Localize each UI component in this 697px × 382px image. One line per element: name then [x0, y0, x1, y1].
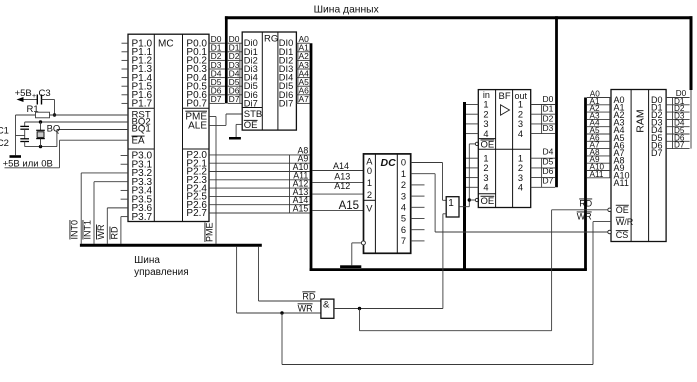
- svg-text:1: 1: [448, 198, 454, 209]
- svg-text:EA: EA: [132, 136, 146, 147]
- svg-text:4: 4: [401, 203, 406, 213]
- svg-text:R1: R1: [27, 104, 39, 115]
- svg-text:D7: D7: [229, 94, 240, 104]
- svg-text:P0.7: P0.7: [186, 99, 207, 110]
- svg-text:управления: управления: [134, 267, 189, 278]
- svg-text:5: 5: [401, 214, 406, 224]
- svg-text:P1.7: P1.7: [132, 99, 153, 110]
- svg-text:A15: A15: [339, 200, 359, 212]
- svg-text:in: in: [483, 90, 490, 100]
- svg-text:OE: OE: [244, 120, 258, 131]
- svg-text:3: 3: [483, 119, 488, 129]
- svg-text:2: 2: [367, 190, 372, 200]
- svg-text:4: 4: [518, 129, 523, 139]
- svg-text:BQ1: BQ1: [132, 124, 151, 135]
- svg-text:CS: CS: [616, 230, 629, 240]
- svg-text:W/R: W/R: [616, 217, 634, 227]
- svg-text:Шина: Шина: [134, 255, 160, 266]
- svg-text:RD: RD: [110, 226, 120, 239]
- svg-text:STB: STB: [244, 109, 262, 120]
- svg-text:A7: A7: [299, 94, 310, 104]
- svg-text:4: 4: [483, 129, 488, 139]
- svg-text:1: 1: [518, 153, 523, 163]
- svg-text:INT0: INT0: [70, 220, 80, 240]
- svg-text:INT1: INT1: [83, 220, 93, 240]
- svg-text:2: 2: [483, 163, 488, 173]
- svg-text:BQ: BQ: [47, 124, 61, 135]
- svg-text:ALE: ALE: [188, 121, 207, 132]
- svg-text:0: 0: [401, 158, 406, 168]
- svg-text:D6: D6: [543, 166, 554, 176]
- svg-text:1: 1: [367, 178, 372, 188]
- svg-text:P3.7: P3.7: [132, 212, 153, 223]
- svg-text:RAM: RAM: [635, 109, 647, 132]
- svg-text:A12: A12: [334, 181, 350, 191]
- svg-text:A11: A11: [590, 170, 604, 179]
- svg-text:D7: D7: [543, 176, 554, 186]
- svg-text:0: 0: [367, 166, 372, 176]
- svg-text:4: 4: [483, 183, 488, 193]
- svg-text:3: 3: [483, 173, 488, 183]
- svg-text:A14: A14: [333, 161, 349, 171]
- svg-text:D7: D7: [674, 141, 685, 150]
- svg-text:1: 1: [483, 153, 488, 163]
- svg-text:+: +: [32, 93, 36, 100]
- svg-text:6: 6: [401, 225, 406, 235]
- svg-text:C2: C2: [0, 138, 9, 149]
- svg-text:RG: RG: [264, 33, 278, 44]
- svg-text:PME: PME: [205, 222, 215, 242]
- svg-text:D3: D3: [543, 123, 554, 133]
- svg-text:WR: WR: [96, 224, 106, 239]
- svg-text:2: 2: [401, 180, 406, 190]
- svg-text:RD: RD: [579, 199, 592, 209]
- svg-text:WR: WR: [298, 303, 313, 313]
- svg-text:OE: OE: [616, 205, 629, 215]
- svg-text:2: 2: [483, 109, 488, 119]
- svg-text:C1: C1: [0, 126, 9, 137]
- svg-text:1: 1: [518, 100, 523, 110]
- svg-text:A15: A15: [293, 204, 309, 214]
- svg-text:D2: D2: [543, 113, 554, 123]
- svg-text:D7: D7: [651, 148, 663, 158]
- svg-text:3: 3: [518, 119, 523, 129]
- svg-text:WR: WR: [577, 212, 592, 222]
- svg-text:3: 3: [401, 191, 406, 201]
- svg-text:1: 1: [483, 100, 488, 110]
- svg-text:Di7: Di7: [244, 98, 258, 108]
- svg-text:C3: C3: [39, 88, 51, 99]
- svg-text:D7: D7: [211, 94, 222, 104]
- svg-text:2: 2: [518, 163, 523, 173]
- svg-text:Шина данных: Шина данных: [314, 5, 380, 16]
- svg-text:OE: OE: [481, 196, 495, 207]
- svg-text:3: 3: [518, 173, 523, 183]
- svg-text:D0: D0: [543, 94, 554, 104]
- svg-text:RD: RD: [302, 291, 315, 301]
- svg-text:V: V: [366, 203, 373, 213]
- svg-text:A11: A11: [614, 178, 629, 188]
- svg-text:1: 1: [401, 169, 406, 179]
- svg-text:D4: D4: [543, 147, 554, 157]
- svg-text:A13: A13: [334, 171, 350, 181]
- svg-text:P2.7: P2.7: [186, 208, 207, 219]
- svg-text:2: 2: [518, 109, 523, 119]
- svg-text:MC: MC: [158, 38, 174, 49]
- svg-text:D5: D5: [543, 156, 554, 166]
- svg-text:DC: DC: [381, 157, 397, 169]
- svg-text:DI7: DI7: [279, 98, 293, 108]
- svg-text:BF: BF: [499, 91, 511, 102]
- svg-text:+5В: +5В: [15, 88, 32, 99]
- svg-text:D1: D1: [543, 104, 554, 114]
- svg-text:4: 4: [518, 183, 523, 193]
- svg-text:+5В или 0В: +5В или 0В: [3, 158, 53, 169]
- svg-text:7: 7: [401, 236, 406, 246]
- svg-text:&: &: [323, 300, 330, 311]
